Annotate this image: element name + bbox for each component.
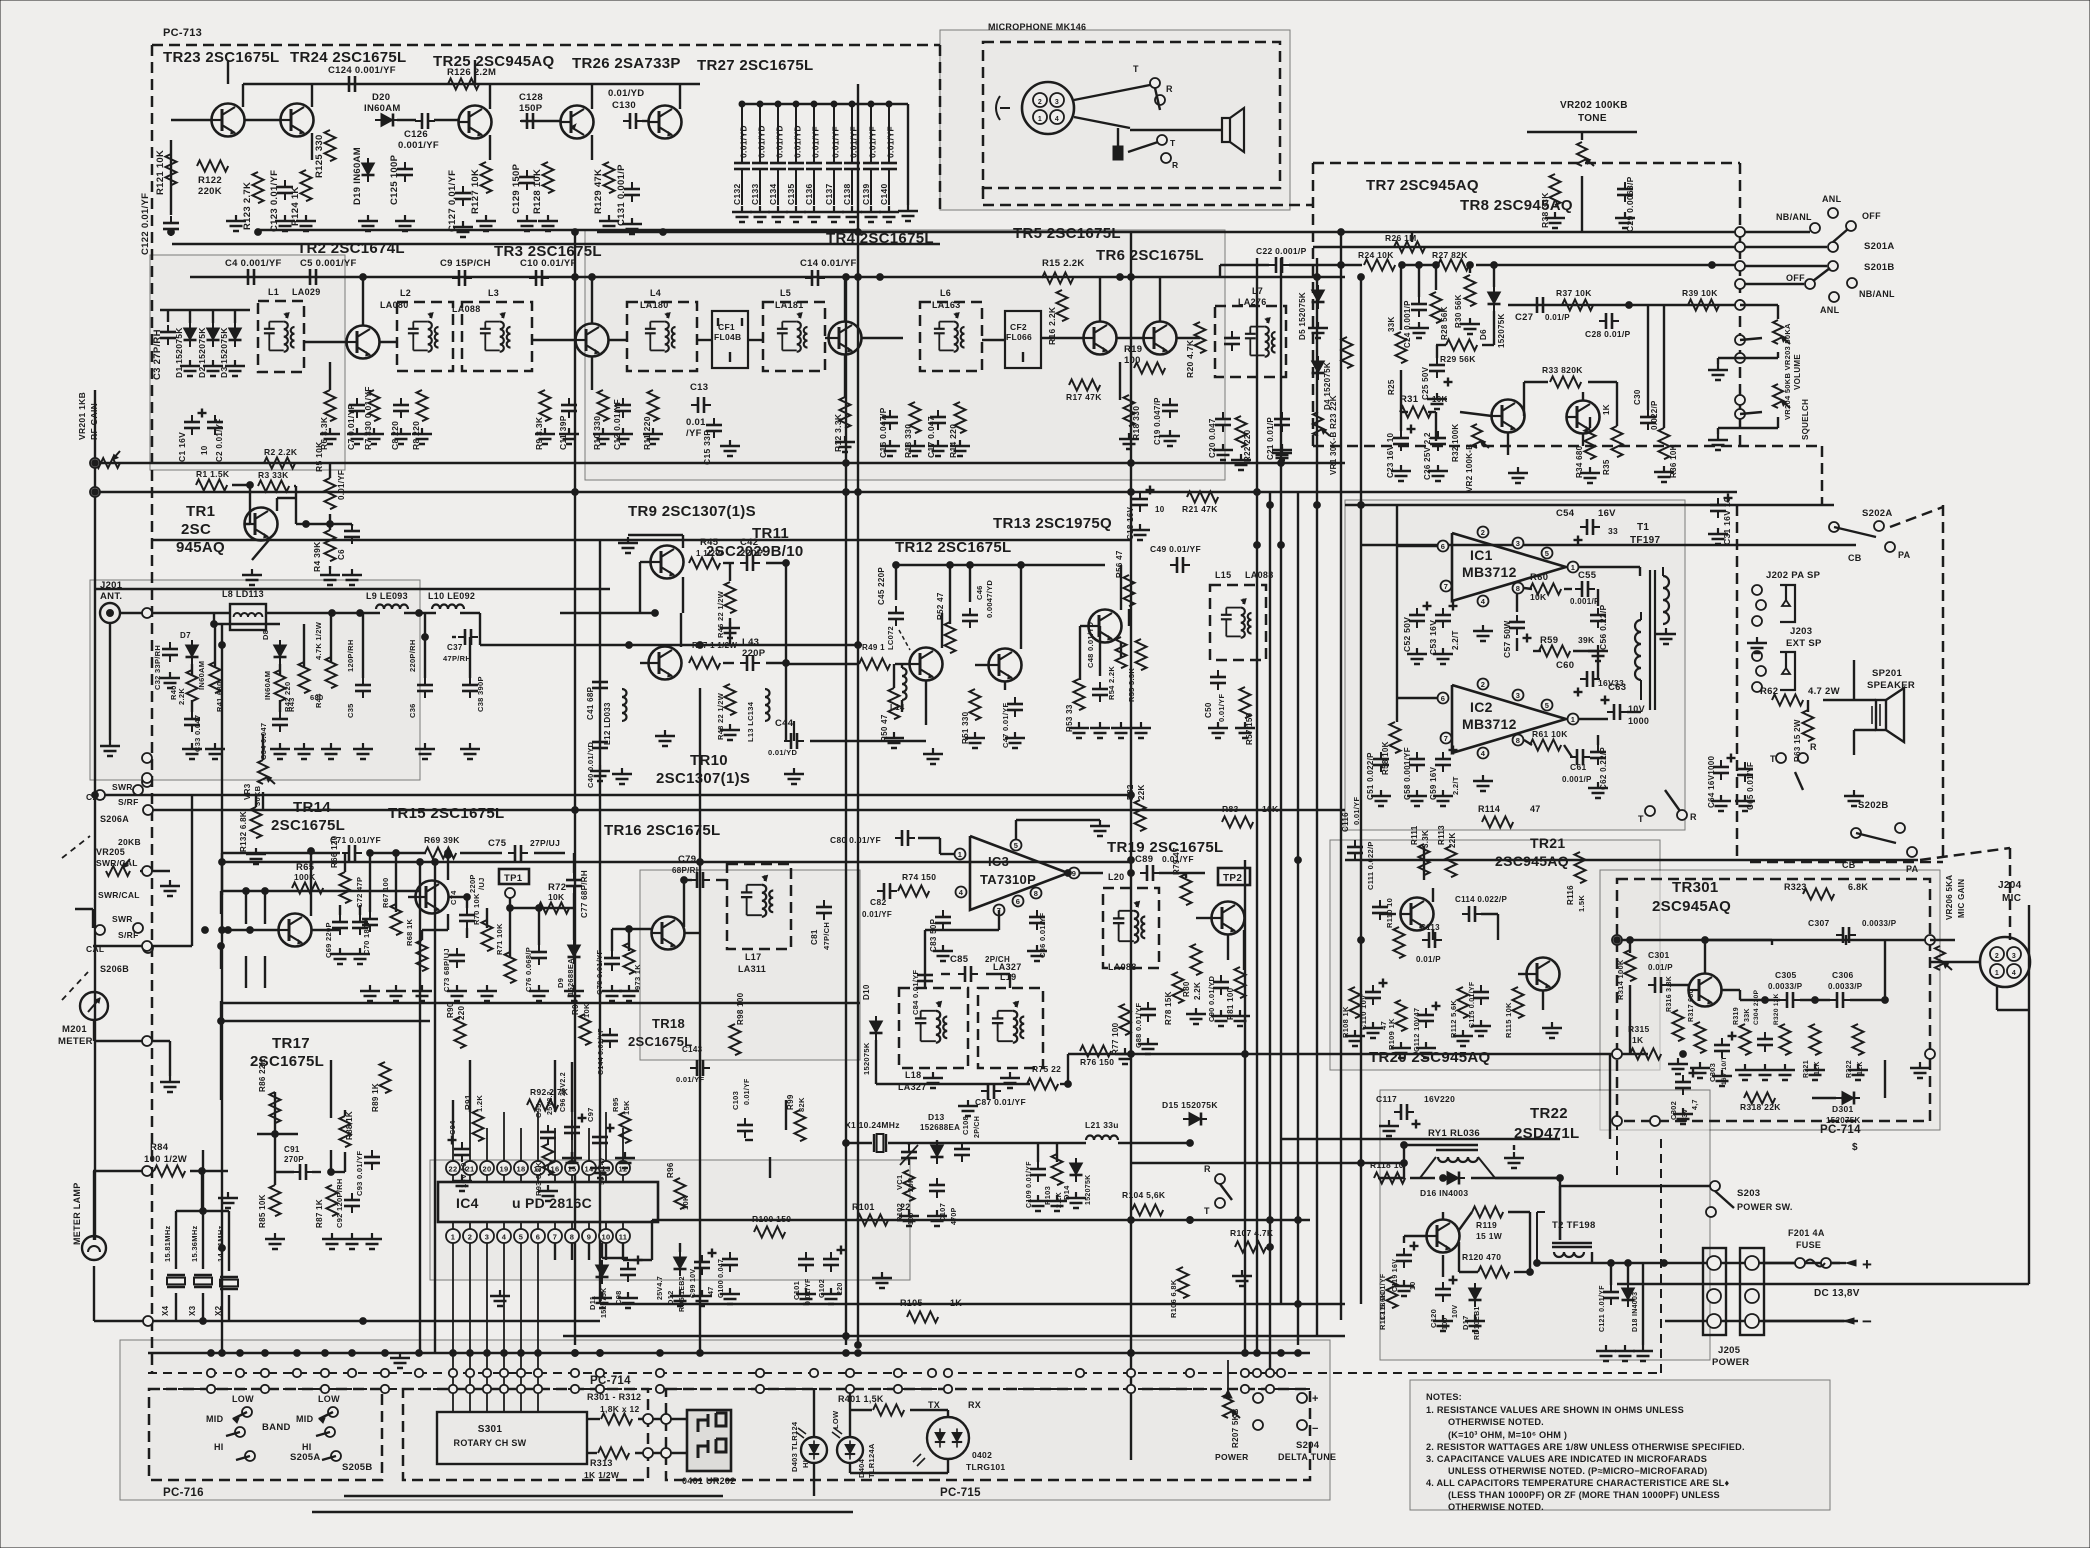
diode D14 <box>1070 1158 1083 1182</box>
junction bus A <box>846 1369 854 1377</box>
pin IC3-8 <box>1031 888 1042 899</box>
ground G-D1 <box>180 360 200 376</box>
ground G-H4 <box>321 743 341 759</box>
svg-text:C83 50P: C83 50P <box>929 918 938 952</box>
svg-text:PA: PA <box>1906 864 1919 874</box>
resistor R107 <box>1235 1242 1266 1253</box>
svg-text:R16 2.2K: R16 2.2K <box>1047 306 1057 345</box>
resistor R8 <box>417 390 428 421</box>
svg-text:R128 10K: R128 10K <box>532 169 543 214</box>
capacitor C26 <box>1430 431 1446 451</box>
ground G-P1 <box>1394 1280 1414 1296</box>
wire audio top <box>1345 504 1834 506</box>
svg-text:R96: R96 <box>666 1162 675 1178</box>
pin IC2-5 <box>1542 700 1553 711</box>
svg-text:1,8K x 12: 1,8K x 12 <box>600 1404 640 1414</box>
capacitor C119 <box>1396 1248 1412 1268</box>
op-amp IC2 <box>1452 685 1566 753</box>
junction dot b2 <box>1314 502 1321 509</box>
resistor R44 <box>326 657 337 688</box>
svg-text:RF GAIN: RF GAIN <box>89 403 99 440</box>
filter CF2 <box>1005 311 1041 368</box>
capacitor C57 <box>1509 615 1525 635</box>
inductor L10 <box>432 605 464 610</box>
svg-text:2SC945AQ: 2SC945AQ <box>1495 853 1569 869</box>
svg-text:220K: 220K <box>198 186 222 197</box>
svg-text:L3: L3 <box>488 288 499 298</box>
svg-text:3: 3 <box>485 1233 489 1242</box>
svg-text:/YF: /YF <box>686 428 702 439</box>
terminal pads <box>1253 1393 1263 1403</box>
ground G-L2 <box>1363 1022 1383 1038</box>
junction bus A <box>415 1369 423 1377</box>
svg-text:MID: MID <box>206 1414 224 1424</box>
svg-text:10: 10 <box>602 1233 611 1242</box>
LED D403 <box>801 1437 827 1463</box>
wire IC4 pin2 drop <box>469 1243 471 1412</box>
capacitor C123 <box>277 180 293 200</box>
junction dot b2 <box>893 562 900 569</box>
junction bus S <box>294 1350 301 1357</box>
resistor R88 <box>340 1116 351 1147</box>
resistor R315 <box>1630 1049 1661 1060</box>
wire row y1304 <box>600 1303 1345 1305</box>
svg-text:CB: CB <box>1848 553 1862 563</box>
svg-text:R37 10K: R37 10K <box>1556 288 1592 298</box>
svg-text:C303: C303 <box>1708 1063 1717 1082</box>
resistor R79 <box>1181 874 1192 905</box>
svg-text:C75: C75 <box>488 838 507 849</box>
svg-text:C79: C79 <box>678 854 696 865</box>
T/R terminals spk <box>1776 753 1786 763</box>
capacitor C27 <box>1530 297 1550 313</box>
svg-text:0401 UR202: 0401 UR202 <box>682 1476 736 1486</box>
svg-text:C14 0.01/YF: C14 0.01/YF <box>800 258 857 269</box>
ground G-I7 <box>1433 790 1453 806</box>
svg-text:ANL: ANL <box>1820 305 1840 315</box>
svg-text:C118 0.01/YF: C118 0.01/YF <box>1380 1273 1387 1320</box>
junction bus B <box>449 1385 457 1393</box>
pot VR2 <box>1472 424 1489 448</box>
svg-text:MIC: MIC <box>2002 893 2021 904</box>
svg-text:4. ALL CAPACITORS TEMPERATU: 4. ALL CAPACITORS TEMPERATURE CHARACTERI… <box>1426 1478 1729 1488</box>
junction dot b2 <box>1358 1160 1365 1167</box>
svg-text:4: 4 <box>1481 597 1486 606</box>
svg-text:VR206 5KA: VR206 5KA <box>1945 875 1954 920</box>
wire NB top rail <box>243 83 445 85</box>
pin IC4-16 <box>548 1161 562 1175</box>
svg-text:TR22: TR22 <box>1530 1105 1568 1122</box>
ground G-J17 <box>265 1233 285 1249</box>
svg-text:R18 330: R18 330 <box>1131 406 1141 440</box>
svg-text:0.01/YF: 0.01/YF <box>886 126 896 158</box>
pin IC2-7 <box>1441 733 1452 744</box>
svg-text:LA276: LA276 <box>1238 297 1267 307</box>
svg-text:R31: R31 <box>1400 394 1419 405</box>
resistor R13 <box>910 402 921 433</box>
svg-text:1. RESISTANCE VALUES ARE S: 1. RESISTANCE VALUES ARE SHOWN IN OHMS U… <box>1426 1405 1684 1415</box>
svg-text:R108 1K: R108 1K <box>1341 1006 1350 1038</box>
svg-text:0402: 0402 <box>972 1450 992 1460</box>
svg-text:TONE: TONE <box>1578 113 1607 124</box>
svg-text:D7: D7 <box>180 631 191 640</box>
svg-text:L12 LD033: L12 LD033 <box>603 702 612 745</box>
wire squelch int <box>1219 265 1221 277</box>
svg-text:R107 4.7K: R107 4.7K <box>1230 1228 1274 1238</box>
wire S201 rows <box>1740 246 1827 248</box>
wire cap-bank top <box>742 103 908 105</box>
junction dot <box>92 460 99 467</box>
ground G-H3 <box>294 743 314 759</box>
svg-text:100: 100 <box>1124 355 1141 366</box>
bus x222 <box>221 624 223 1353</box>
junction dot b2 <box>1842 1095 1849 1102</box>
ground G-G2 <box>1131 722 1151 738</box>
svg-text:C139: C139 <box>861 183 871 205</box>
wire rail y1003 <box>222 1002 860 1004</box>
svg-text:C306: C306 <box>1832 970 1854 980</box>
svg-text:2.2K: 2.2K <box>177 688 186 705</box>
capacitor C20 <box>1215 412 1231 432</box>
svg-text:C2 0.01/YF: C2 0.01/YF <box>215 419 224 462</box>
svg-text:C107: C107 <box>938 1203 947 1222</box>
transistor TR10 <box>649 647 682 680</box>
capacitor C1 <box>184 415 200 435</box>
svg-text:6.8K: 6.8K <box>1848 882 1868 892</box>
inductor L13 <box>765 689 770 721</box>
junction dot <box>1242 1051 1249 1058</box>
resistor R47 <box>689 658 720 669</box>
svg-text:4: 4 <box>502 1233 507 1242</box>
svg-text:R313: R313 <box>590 1458 613 1468</box>
svg-text:2SC945AQ: 2SC945AQ <box>1652 898 1731 915</box>
transistor TR3 <box>576 324 609 357</box>
junction dot b2 <box>1661 1260 1668 1267</box>
capacitor C82 <box>877 883 897 899</box>
svg-text:UNLESS OTHERWISE NOTED. (P≈: UNLESS OTHERWISE NOTED. (P≈MICRO−MICROFA… <box>1448 1466 1707 1476</box>
wire IC4 top pin stub <box>452 1128 454 1161</box>
resistor R22 <box>1236 416 1247 447</box>
junction dot <box>1117 274 1124 281</box>
svg-text:C51 0.022/P: C51 0.022/P <box>1366 752 1375 800</box>
svg-text:TR21: TR21 <box>1530 835 1565 851</box>
resistor R74 <box>898 886 929 897</box>
resistor R128 <box>543 162 554 193</box>
pin IC1-1 <box>1568 562 1579 573</box>
svg-text:TR12 2SC1675L: TR12 2SC1675L <box>895 539 1011 556</box>
svg-text:LA029: LA029 <box>292 287 321 297</box>
capacitor C74 <box>459 908 475 928</box>
svg-text:0.001/YF: 0.001/YF <box>398 140 439 151</box>
ground G-J2 <box>477 985 497 1001</box>
trimmer VC1 <box>901 1145 917 1165</box>
svg-text:4: 4 <box>1055 116 1059 123</box>
svg-text:MID: MID <box>296 1414 314 1424</box>
filter CF1 <box>712 311 748 368</box>
svg-text:S202B: S202B <box>1858 800 1889 811</box>
svg-text:C137: C137 <box>824 183 834 205</box>
junction bus A <box>466 1369 474 1377</box>
resistor R72 <box>538 903 569 914</box>
capacitor C64 <box>1713 760 1729 780</box>
wire ant sub <box>213 613 215 624</box>
dashed bus row A <box>148 1372 1660 1374</box>
resistor R31 <box>1400 407 1431 418</box>
svg-text:C10 0.01/YF: C10 0.01/YF <box>520 258 577 269</box>
junction dot b2 <box>1812 997 1819 1004</box>
svg-text:4,7: 4,7 <box>1692 1099 1699 1110</box>
pin IC4-4 <box>497 1229 511 1243</box>
junction dot b2 <box>1401 1160 1408 1167</box>
ground G-A1 <box>226 215 246 231</box>
capacitor C59 <box>1435 752 1451 772</box>
svg-text:L7: L7 <box>1252 286 1263 296</box>
resistor R58 <box>1390 722 1401 753</box>
terminal S204+ <box>1297 1393 1307 1403</box>
capacitor C31 <box>1710 498 1726 518</box>
svg-text:R13 330: R13 330 <box>903 424 913 458</box>
svg-text:C47 0.01/YF: C47 0.01/YF <box>1001 702 1010 748</box>
bus left rail <box>94 390 96 1240</box>
collector stub TR23 <box>242 84 244 107</box>
capacitor C22 <box>1269 257 1289 273</box>
svg-text:C52 50V: C52 50V <box>1402 617 1412 652</box>
svg-text:270P: 270P <box>284 1155 304 1164</box>
svg-text:0.01/YD: 0.01/YD <box>775 125 785 158</box>
svg-text:R116: R116 <box>1566 885 1575 905</box>
junction bus S <box>843 1350 850 1357</box>
resistor R20 <box>1195 322 1206 353</box>
capacitor C76 <box>531 945 547 965</box>
capacitor C41 <box>592 675 608 695</box>
svg-text:R91: R91 <box>464 1094 473 1110</box>
pin IC4-2 <box>463 1229 477 1243</box>
svg-text:D16 IN4003: D16 IN4003 <box>1420 1188 1468 1198</box>
junction dot b2 <box>572 274 579 281</box>
wire IC4 top pin stub <box>537 1112 539 1161</box>
svg-text:5: 5 <box>1545 701 1549 710</box>
svg-text:R86 22K: R86 22K <box>258 1058 267 1092</box>
junction dot b2 <box>1702 937 1709 944</box>
capacitor C73 <box>449 948 465 968</box>
junction dot b2 <box>1065 870 1072 877</box>
mic element <box>1117 128 1119 152</box>
svg-text:HI: HI <box>801 1460 810 1468</box>
resistor R53 <box>1074 679 1085 710</box>
pin IC4-14 <box>582 1161 596 1175</box>
junction dot b2 <box>501 1350 508 1357</box>
svg-text:C307: C307 <box>1808 918 1830 928</box>
resistor R73 <box>624 943 635 974</box>
ground G-P2 <box>1596 1345 1616 1361</box>
junction dot <box>660 229 667 236</box>
capacitor C140 <box>888 104 890 160</box>
capacitor C307 <box>1836 927 1856 943</box>
junction dot b2 <box>219 859 226 866</box>
svg-text:CF2: CF2 <box>1010 322 1027 332</box>
svg-text:11: 11 <box>619 1233 628 1242</box>
junction bus S <box>262 1350 269 1357</box>
wire IC3 area <box>998 910 1000 930</box>
svg-text:27P/UJ: 27P/UJ <box>530 838 560 848</box>
junction bus B <box>483 1385 491 1393</box>
svg-text:R319: R319 <box>1733 1007 1740 1025</box>
svg-text:R5 10K: R5 10K <box>314 441 324 472</box>
svg-text:D18 IN4003: D18 IN4003 <box>1632 1292 1639 1332</box>
junction dot b2 <box>518 1350 525 1357</box>
resistor R56 <box>1124 575 1135 606</box>
svg-text:2SC1675L: 2SC1675L <box>271 817 345 834</box>
resistor R87 <box>327 1185 338 1216</box>
ground G-J2 <box>619 985 639 1001</box>
svg-text:15 1W: 15 1W <box>1476 1231 1503 1241</box>
capacitor C116 <box>1347 840 1363 860</box>
resistor R51 <box>970 689 981 720</box>
junction bus A <box>1253 1369 1261 1377</box>
svg-text:C304 220P: C304 220P <box>1753 989 1760 1025</box>
junction dot <box>1187 1140 1194 1147</box>
resistor R30 <box>1465 275 1476 306</box>
wire CB row <box>1360 544 1856 546</box>
ground cap-bank end <box>898 205 918 221</box>
IF can L7 <box>1215 306 1286 377</box>
capacitor C120 <box>1435 1282 1451 1302</box>
resistor R120 <box>1478 1267 1509 1278</box>
resistor R42 <box>275 670 286 701</box>
inductor L12 <box>622 689 627 721</box>
junction bus B <box>571 1385 579 1393</box>
wire D-row <box>160 309 250 311</box>
svg-text:R89 1K: R89 1K <box>371 1083 380 1112</box>
capacitor C302 <box>1675 1075 1691 1095</box>
svg-text:2.2K: 2.2K <box>1193 982 1202 1000</box>
junction bus A <box>534 1369 542 1377</box>
svg-text:C69 220P: C69 220P <box>324 922 333 958</box>
svg-text:TR15 2SC1675L: TR15 2SC1675L <box>388 805 504 822</box>
svg-text:R33 820K: R33 820K <box>1542 365 1583 375</box>
svg-text:TR17: TR17 <box>272 1035 310 1052</box>
svg-text:RX: RX <box>968 1400 981 1410</box>
svg-text:R74 150: R74 150 <box>902 872 936 882</box>
svg-text:R129 47K: R129 47K <box>593 169 604 214</box>
resistor R68 <box>417 940 428 971</box>
capacitor C9 <box>452 270 472 286</box>
svg-text:D13: D13 <box>928 1112 945 1122</box>
junction dot b2 <box>445 852 452 859</box>
svg-text:R: R <box>1166 84 1173 94</box>
resistor R98 <box>730 1024 741 1055</box>
svg-text:C91: C91 <box>284 1145 300 1154</box>
svg-text:R80: R80 <box>1182 981 1191 997</box>
collector stub TR24 <box>311 84 313 107</box>
junction dot b2 <box>1626 302 1633 309</box>
pin IC3-9 <box>1069 868 1080 879</box>
wire TX1 <box>222 852 340 854</box>
junction dot <box>92 489 99 496</box>
junction dot <box>1527 1269 1534 1276</box>
ground G-K3 <box>923 1072 943 1088</box>
svg-text:R8 220: R8 220 <box>411 421 421 450</box>
wire bus y1321 <box>94 1320 600 1322</box>
svg-text:15.36MHz: 15.36MHz <box>190 1225 199 1262</box>
ground G-E5 <box>720 440 740 456</box>
svg-text:C4 0.001/YF: C4 0.001/YF <box>225 258 282 269</box>
junction dot <box>626 642 633 649</box>
svg-text:R90: R90 <box>446 1002 455 1018</box>
wire audio fb <box>1524 588 1532 589</box>
junction dot b2 <box>243 888 250 895</box>
capacitor C108 <box>954 1142 970 1162</box>
ground G-H2 <box>270 743 290 759</box>
resistor R18 <box>1124 395 1135 426</box>
junction bus S <box>1128 1350 1135 1357</box>
transistor TR9 <box>651 546 684 579</box>
svg-text:IC4: IC4 <box>456 1195 479 1211</box>
svg-text:D12: D12 <box>666 1290 675 1305</box>
resistor R94 <box>580 1014 591 1045</box>
junction dot b2 <box>417 859 424 866</box>
wire LED <box>813 1389 815 1437</box>
junction bus A <box>293 1369 301 1377</box>
capacitor C42 <box>740 555 760 571</box>
bus right mic <box>2028 905 2030 1284</box>
svg-text:C124 0.001/YF: C124 0.001/YF <box>328 65 396 76</box>
bus cluster 5 <box>1297 492 1299 1345</box>
junction dot <box>843 460 850 467</box>
junction bus S <box>855 1350 862 1357</box>
collector stub TR25 <box>489 84 491 109</box>
svg-text:R98 100: R98 100 <box>736 992 745 1025</box>
svg-text:C87 0.01/YF: C87 0.01/YF <box>975 1097 1026 1107</box>
svg-text:R: R <box>1172 160 1178 170</box>
capacitor C61 <box>1570 749 1590 765</box>
junction dot <box>1614 937 1621 944</box>
ground G-D3 <box>225 360 245 376</box>
terminal VR201 <box>90 458 100 468</box>
svg-text:C6: C6 <box>337 549 346 560</box>
svg-text:R: R <box>1810 742 1817 752</box>
svg-text:TF197: TF197 <box>1630 535 1661 546</box>
svg-text:33: 33 <box>1608 526 1618 536</box>
resistor R71 <box>505 952 516 983</box>
pin IC3-5 <box>1011 840 1022 851</box>
bus cluster 6 <box>1316 258 1318 1336</box>
crystal X2 <box>220 1277 238 1289</box>
svg-text:NB/ANL: NB/ANL <box>1776 212 1812 222</box>
svg-text:C57 50W: C57 50W <box>1502 620 1512 658</box>
junction dot b2 <box>1018 562 1025 569</box>
stage link TR15 base <box>408 896 415 898</box>
ground G-H11 <box>612 768 632 784</box>
svg-text:C28 0.01/P: C28 0.01/P <box>1585 329 1631 339</box>
switch S203 <box>1710 1181 1720 1191</box>
junction bus A <box>207 1369 215 1377</box>
wire AGC rail <box>95 462 1345 464</box>
wire IC4 top pin stub <box>469 1112 471 1161</box>
svg-text:R46 22 1/2W: R46 22 1/2W <box>716 590 725 638</box>
svg-text:10K: 10K <box>548 892 565 902</box>
svg-text:IN60AM: IN60AM <box>197 661 206 690</box>
svg-text:F201 4A: F201 4A <box>1788 1228 1825 1238</box>
resistor R127 <box>481 162 492 193</box>
capacitor C16 <box>882 410 898 430</box>
capacitor C18 <box>1132 492 1148 512</box>
svg-text:R2 2.2K: R2 2.2K <box>264 447 298 457</box>
capacitor C44 <box>784 733 804 749</box>
svg-text:R122: R122 <box>198 175 222 186</box>
svg-text:OFF: OFF <box>1786 273 1805 283</box>
svg-text:39K: 39K <box>1578 635 1595 645</box>
